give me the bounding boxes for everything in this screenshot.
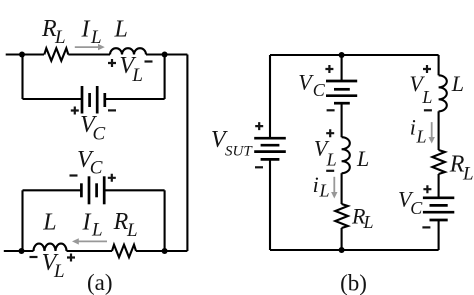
svg-text:L: L	[421, 87, 432, 107]
wire: (a) bottom loop top-left horizontal	[23, 189, 82, 191]
wire: (b) right between resistor and battery	[438, 174, 440, 198]
node: (a) bottom-left junction dot	[19, 248, 25, 254]
wire: (a) bottom rail left stub	[4, 250, 34, 252]
svg-text:L: L	[54, 27, 66, 48]
svg-text:C: C	[313, 80, 326, 100]
wire: (a) top rail between resistor and inductor	[68, 53, 110, 55]
current arrow i_L (b) middle	[331, 177, 337, 199]
node: (a) bottom-right junction dot	[162, 248, 168, 254]
svg-text:C: C	[410, 198, 423, 218]
wire: (b) middle between battery and inductor	[341, 103, 343, 137]
wire: (b) right between inductor and resistor	[438, 111, 440, 150]
wire: (b) left vertical below battery	[269, 159, 271, 250]
minus sign: V_L (b) middle	[326, 170, 334, 172]
svg-text:V: V	[298, 70, 314, 95]
wire: (a) top rail left stub	[6, 53, 44, 55]
svg-text:L: L	[53, 261, 65, 282]
plus sign: battery V_C (b) middle	[325, 65, 333, 73]
inductor L (b) middle	[342, 137, 350, 173]
resistor R_L (a) top	[44, 48, 68, 61]
wire: (b) right below battery	[438, 220, 440, 250]
plus sign: battery V_C (a) top	[71, 107, 79, 115]
wire: (a) bottom loop right vertical	[164, 190, 166, 251]
svg-text:C: C	[93, 124, 106, 145]
wire: (a) top loop bottom-left horizontal	[23, 98, 83, 100]
svg-text:i: i	[410, 115, 416, 140]
svg-text:L: L	[126, 220, 138, 241]
wire: (a) top loop bottom-right horizontal	[105, 98, 165, 100]
inductor L (b) right	[439, 75, 447, 111]
wire: (a) bottom rail right	[136, 250, 187, 252]
plus sign: V_L (a) bottom	[67, 254, 75, 262]
svg-text:I: I	[81, 17, 91, 43]
battery V_SUT : plates	[254, 137, 286, 140]
wire: (a) top loop left vertical	[21, 55, 23, 100]
svg-text:L: L	[114, 17, 128, 43]
svg-text:L: L	[131, 65, 143, 86]
svg-text:L: L	[319, 181, 330, 201]
wire: (a) top rail right of inductor	[146, 53, 187, 55]
minus sign: battery V_C (b) middle	[327, 109, 335, 111]
resistor R_L (b) right	[432, 150, 445, 174]
wire: (b) left vertical above battery	[269, 55, 271, 138]
minus sign: V_L (a) bottom	[30, 256, 38, 258]
minus sign: battery V_C (a) bottom	[70, 174, 78, 176]
plus sign: V_L (a) top	[108, 59, 116, 67]
svg-text:L: L	[90, 27, 102, 48]
node: (a) top-left junction dot	[19, 52, 25, 58]
plus sign: V_L (b) middle	[326, 129, 334, 137]
resistor R_L (a) bottom	[112, 245, 136, 258]
node: (a) top-right junction dot	[162, 52, 168, 58]
minus sign: V_L (b) right	[424, 109, 432, 111]
wire: (b) top rail	[270, 54, 439, 56]
battery V_C (b) middle : plates	[326, 80, 357, 83]
node: (b) bottom junction dot	[339, 247, 345, 253]
plus sign: battery V_SUT	[255, 122, 263, 130]
wire: (a) top loop right vertical	[164, 55, 166, 100]
svg-text:(b): (b)	[340, 271, 367, 295]
svg-text:(a): (a)	[87, 270, 113, 295]
plus sign: V_L (b) right	[423, 65, 431, 73]
plus sign: battery V_C (a) bottom	[108, 174, 116, 182]
svg-text:C: C	[90, 158, 103, 179]
wire: (b) bottom rail	[270, 249, 439, 251]
current arrow i_L (b) right	[429, 122, 435, 143]
svg-text:L: L	[326, 150, 337, 170]
wire: (b) middle between inductor and resistor	[341, 173, 343, 204]
wire: (a) bottom loop left vertical	[21, 190, 23, 251]
wire: (b) middle branch top	[341, 55, 343, 81]
svg-text:L: L	[416, 127, 427, 147]
wire: (a) right vertical	[186, 55, 188, 252]
node: (b) top junction dot	[339, 52, 345, 58]
svg-text:L: L	[91, 220, 103, 241]
svg-text:L: L	[462, 164, 474, 185]
battery V_C (a) bottom : plates	[80, 183, 83, 197]
resistor R_L (b) middle	[335, 204, 348, 228]
current arrow I_L (a) bottom	[72, 238, 107, 244]
wire: (b) middle below resistor	[341, 228, 343, 250]
battery V_C (b) right : plates	[423, 196, 454, 199]
wire: (a) bottom rail middle	[67, 250, 113, 252]
minus sign: battery V_C (a) top	[108, 109, 116, 111]
wire: (a) bottom loop top-right horizontal	[104, 189, 164, 191]
inductor L (a) top	[110, 48, 146, 54]
battery V_C (a) top : plates	[81, 86, 84, 114]
minus sign: battery V_C (b) right	[422, 226, 430, 228]
svg-text:i: i	[313, 172, 319, 197]
minus sign: battery V_SUT	[255, 166, 263, 168]
svg-text:I: I	[82, 210, 92, 236]
wire: (b) right branch top	[438, 55, 440, 75]
minus sign: V_L (a) top	[145, 60, 153, 62]
plus sign: battery V_C (b) right	[423, 185, 431, 193]
inductor L (a) bottom	[34, 244, 67, 251]
svg-text:L: L	[356, 146, 369, 171]
current arrow I_L (a) top	[75, 44, 105, 50]
svg-text:L: L	[363, 212, 374, 232]
svg-text:L: L	[42, 210, 56, 236]
svg-text:SUT: SUT	[225, 143, 253, 159]
svg-text:L: L	[451, 71, 464, 96]
